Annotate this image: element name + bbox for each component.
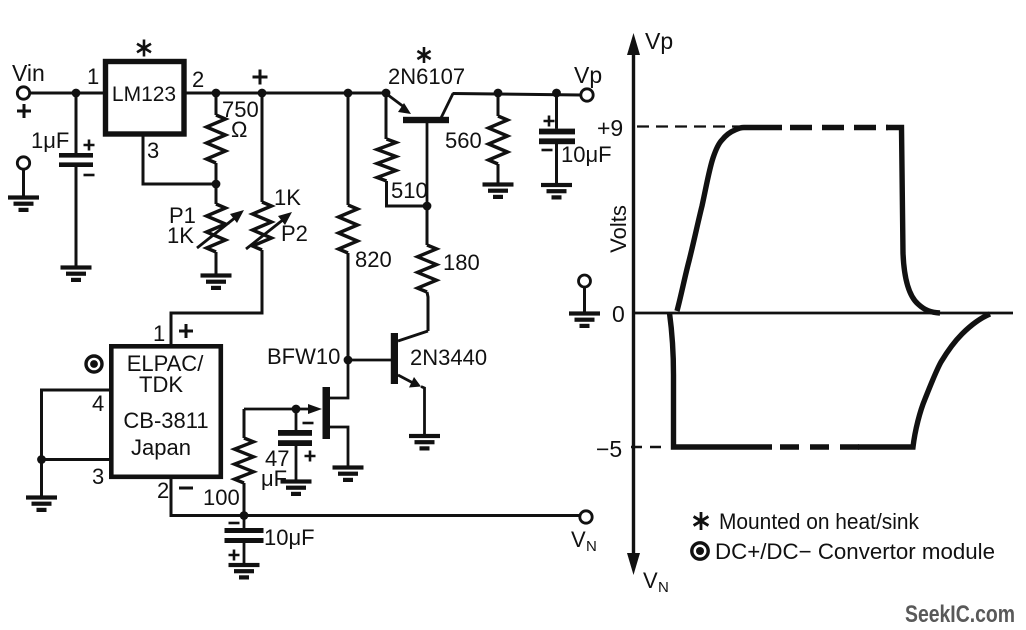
legend bullseye symbol [692, 543, 708, 559]
dashed level -5 [631, 446, 668, 449]
wire LM123 pin2 rail [185, 92, 386, 95]
capacitor C2 10uF output [539, 89, 612, 183]
junction 1uF top [72, 89, 81, 98]
node Vin input terminal [12, 60, 45, 118]
svg-text:4: 4 [92, 391, 104, 416]
legend asterisk symbol [694, 512, 709, 530]
svg-text:1: 1 [87, 64, 99, 89]
ground below 2N3440 emitter [409, 434, 440, 451]
svg-text:DC+/DC− Convertor module: DC+/DC− Convertor module [715, 539, 995, 564]
junction 510 / base / 180 [423, 202, 432, 211]
asterisk heatsink mark on 2N6107 [417, 47, 430, 63]
transistor Q3 BFW10 JFET [244, 360, 348, 466]
svg-text:2N3440: 2N3440 [410, 345, 487, 370]
ground below output 10uF [541, 183, 572, 200]
ground mid right [569, 311, 600, 328]
junction 100 / VN bus [240, 511, 249, 520]
svg-text:10μF: 10μF [264, 525, 315, 550]
wire LM123 pin3 to divider [143, 135, 216, 184]
waveform Vp dashed top [790, 125, 888, 131]
ground below P1 [201, 273, 232, 290]
svg-text:2N6107: 2N6107 [388, 64, 465, 89]
dashed level +9 [637, 125, 742, 127]
node VN output terminal [571, 511, 597, 555]
wire module pin 4 [42, 390, 112, 460]
ground below 560 [483, 182, 514, 199]
svg-text:N: N [658, 579, 669, 596]
svg-text:510: 510 [391, 178, 428, 203]
ground below 1uF [61, 265, 92, 282]
pin 3 label module [92, 464, 104, 489]
svg-text:CB-3811: CB-3811 [123, 408, 208, 433]
legend text mounted on heatsink [719, 509, 920, 534]
svg-text:820: 820 [355, 247, 392, 272]
svg-text:LM123: LM123 [112, 83, 176, 106]
svg-text:0: 0 [612, 301, 625, 327]
junction rail at P2 [258, 89, 267, 98]
pin 2 label LM123 [192, 67, 204, 92]
axis label 0 [612, 301, 625, 327]
wire collector rail to Vp [453, 94, 582, 96]
svg-text:1K: 1K [274, 185, 301, 210]
module U2 ELPAC/TDK CB-3811 [111, 346, 221, 477]
svg-text:Vin: Vin [12, 60, 45, 86]
svg-text:560: 560 [445, 128, 482, 153]
junction rail at 820 [344, 89, 353, 98]
svg-text:−5: −5 [596, 436, 622, 462]
svg-text:μF: μF [261, 466, 287, 491]
graph axis vertical [627, 33, 640, 575]
ground below BFW10 source [333, 465, 364, 482]
legend text convertor module [715, 539, 995, 564]
watermark SeekIC.com [905, 601, 1015, 628]
pin 4 label module [92, 391, 104, 416]
wire module pin 2 to VN [171, 477, 580, 516]
ground below 47uF [281, 479, 312, 496]
ground below negative 10uF [229, 563, 260, 580]
pin 1 + polarity [179, 324, 193, 338]
svg-text:BFW10: BFW10 [267, 344, 340, 369]
bullseye DC module mark [86, 356, 102, 372]
capacitor C1 1uF [31, 128, 95, 175]
ground below module pins 3-4 [26, 495, 57, 512]
svg-text:Volts: Volts [606, 205, 631, 253]
axis label -5 [596, 436, 622, 462]
wire module pin 3 [42, 460, 112, 497]
svg-text:N: N [586, 538, 597, 555]
resistor R4 180 [418, 206, 480, 331]
axis label VN [643, 568, 669, 596]
transistor Q1 2N6107 [388, 64, 465, 206]
junction 820 / BFW10 drain / base [344, 356, 353, 365]
transistor Q2 2N3440 [348, 331, 487, 434]
svg-text:Japan: Japan [131, 435, 191, 460]
svg-text:SeekIC.com: SeekIC.com [905, 601, 1015, 628]
svg-text:Vp: Vp [574, 62, 602, 88]
svg-text:10μF: 10μF [561, 142, 612, 167]
waveform Vp fall [886, 128, 940, 314]
resistor R1 750 ohm [207, 93, 259, 184]
svg-text:P2: P2 [281, 221, 308, 246]
svg-text:180: 180 [443, 250, 480, 275]
waveform VN fall [670, 313, 773, 447]
potentiometer P2 1K [171, 93, 308, 346]
svg-text:3: 3 [147, 138, 159, 163]
zero axis horizontal [635, 312, 1013, 315]
svg-text:1: 1 [153, 321, 165, 346]
axis label +9 [597, 115, 623, 141]
resistor R5 560 [445, 89, 508, 183]
svg-text:V: V [571, 527, 586, 552]
capacitor C3 47uF [261, 409, 316, 491]
svg-text:Vp: Vp [645, 28, 673, 54]
wire Vin to LM123 pin 1 [30, 92, 105, 95]
junction pin3 / 750 / P1 [212, 180, 221, 189]
junction rail at 750 [212, 89, 221, 98]
capacitor C4 10uF negative rail [225, 515, 315, 563]
regulator U1 LM123 [106, 62, 185, 135]
resistor R2 820 [339, 93, 392, 360]
svg-text:Mounted on heat/sink: Mounted on heat/sink [719, 509, 920, 534]
pin 2 - polarity [179, 487, 193, 490]
pin 2 label module [157, 478, 169, 503]
junction pin3 / pin4 [37, 455, 46, 464]
svg-text:TDK: TDK [139, 372, 183, 397]
pin 1 label module [153, 321, 165, 346]
svg-text:3: 3 [92, 464, 104, 489]
svg-text:Ω: Ω [231, 117, 247, 142]
waveform VN dashed bottom [780, 444, 860, 450]
asterisk heatsink mark on LM123 [137, 40, 151, 57]
pin 3 label LM123 [147, 138, 159, 163]
junction rail at 2N6107 emitter [382, 89, 391, 98]
chassis terminal left [17, 157, 29, 196]
axis label Vp [645, 28, 673, 54]
waveform VN rise [858, 314, 990, 447]
axis label Volts rotated [606, 205, 631, 253]
svg-text:2: 2 [192, 67, 204, 92]
svg-text:1K: 1K [167, 223, 194, 248]
wire 1uF branch [75, 93, 78, 266]
junction gate / 47uF [292, 405, 301, 414]
potentiometer P1 1K [167, 184, 244, 274]
svg-text:V: V [643, 568, 658, 593]
resistor R3 510 [377, 93, 428, 206]
resistor R6 100 [203, 409, 254, 515]
svg-text:2: 2 [157, 478, 169, 503]
waveform Vp rise [677, 128, 782, 312]
pin 1 label LM123 [87, 64, 99, 89]
node + rail label [253, 70, 268, 85]
svg-text:+9: +9 [597, 115, 623, 141]
svg-text:100: 100 [203, 485, 240, 510]
chassis ground terminal mid right [579, 275, 591, 312]
node Vp output terminal [574, 62, 602, 101]
svg-text:1μF: 1μF [31, 128, 69, 153]
label BFW10 [267, 344, 340, 369]
ground below chassis terminal [8, 195, 39, 212]
